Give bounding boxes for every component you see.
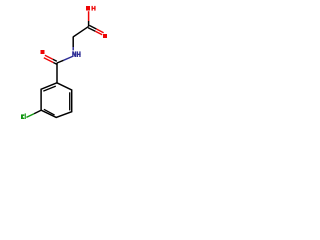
aromatic inner line right edge — [69, 92, 71, 110]
bond C1-C2 — [73, 26, 89, 37]
atom O3 (amide oxygen, filled red square) — [41, 50, 45, 54]
atom label Cl (drawn as blob C + bar l) — [21, 113, 26, 119]
bond N-C3 blue half — [64, 56, 73, 60]
bond C3=O3 double upper line red half — [45, 55, 53, 59]
bond C1=O2 double lower line black half — [88, 28, 95, 32]
aromatic inner line bottom-left edge — [44, 109, 55, 115]
bond O1-C1 red half — [88, 11, 90, 21]
bond C2-N blue half — [72, 47, 74, 50]
aromatic inner line top-left edge — [43, 86, 56, 91]
background — [0, 0, 130, 130]
notch of C glyph — [23, 116, 25, 118]
atom O1 (carboxyl hydroxyl oxygen, filled red square) — [86, 6, 90, 11]
atom label H of NH (drawn as bars) — [77, 51, 81, 57]
bond C3=O3 double upper line black half — [53, 59, 57, 61]
bond O1-C1 black half — [88, 21, 90, 26]
bond C3=O3 double lower line red half — [44, 58, 54, 63]
benzene ring outer hexagon — [41, 83, 72, 118]
bond N-C3 black half — [57, 60, 64, 63]
bond C1=O2 double upper line red half — [96, 29, 103, 33]
atom label N (drawn as bars) — [72, 51, 76, 57]
atom O2 (carboxyl carbonyl oxygen, filled red square) — [103, 34, 107, 38]
bond C1=O2 double upper line black half — [89, 25, 96, 29]
bond C2-N black half — [72, 37, 74, 47]
bond C1=O2 double lower line red half — [95, 31, 102, 35]
bond ring-Cl black half — [34, 110, 41, 114]
bond C3-ring top — [56, 63, 58, 83]
atom label H of OH (drawn as bars) — [92, 6, 96, 11]
bond ring-Cl green half — [26, 114, 34, 118]
bond C3=O3 double lower line black half — [53, 63, 57, 65]
